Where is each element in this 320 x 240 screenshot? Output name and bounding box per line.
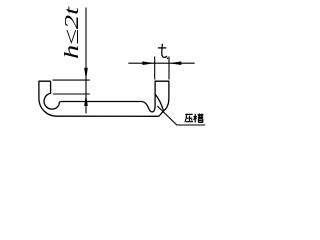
leader line to label xyxy=(157,106,205,125)
arrow h upper xyxy=(84,68,88,80)
t extension tick left xyxy=(154,57,156,80)
arrow t left xyxy=(142,61,154,65)
left flange outer outline xyxy=(39,81,159,116)
t extension tick right xyxy=(168,57,170,80)
label 压 (hand-drawn strokes) xyxy=(185,114,193,122)
label 槽 (hand-drawn strokes) xyxy=(194,114,204,123)
extension line A (top of groove) xyxy=(52,79,89,81)
curl (rolled edge) J-hook xyxy=(44,81,169,116)
t dimension line xyxy=(128,62,194,64)
dimension line h (vertical) xyxy=(85,8,87,114)
dimension text t xyxy=(158,44,168,59)
arrow t right xyxy=(169,61,181,65)
arrow h lower xyxy=(84,94,88,106)
inner shear face of groove xyxy=(155,94,163,110)
svg-text:h≤2t: h≤2t xyxy=(61,6,83,59)
extension line B (shear point) xyxy=(53,93,90,95)
